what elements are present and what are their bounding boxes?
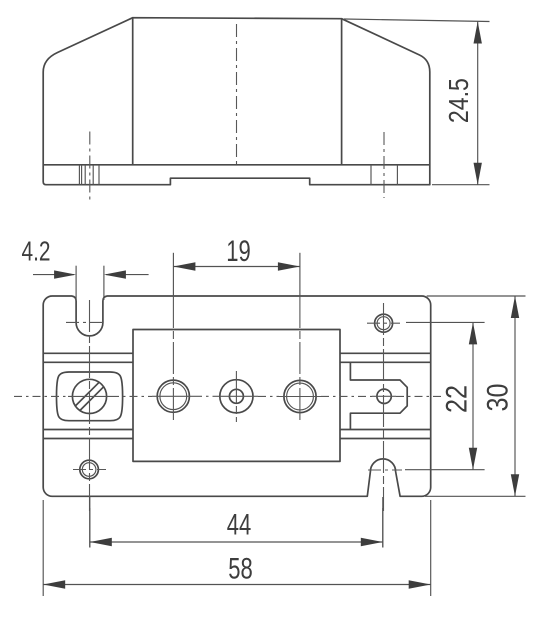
terminal hole 3 outer (284, 380, 316, 412)
dim 19 arrow right (278, 262, 300, 270)
dim 4.2 arrow right (54, 270, 76, 278)
dim 22 line (472, 322, 474, 469)
bottom left rivet horizontal centerline (73, 469, 106, 471)
dim 4.2 right leader (106, 274, 149, 276)
svg-text:44: 44 (227, 509, 252, 542)
left screw terminal barrel (57, 372, 123, 421)
hole2 centerline (235, 371, 237, 422)
side view right slot ticks (371, 165, 397, 185)
terminal hole 2 outer (220, 380, 253, 413)
dim 24.5 extension bottom (432, 184, 490, 186)
side view centerline right mount (383, 132, 385, 198)
hole1 centerline ext for 19 (172, 253, 174, 296)
left vertical centerline (89, 300, 91, 511)
svg-text:24.5: 24.5 (443, 78, 474, 123)
dim 44 ext right (382, 497, 384, 548)
plan view outer outline (43, 296, 431, 496)
dim 4.2 ext left (75, 266, 77, 300)
dim 30 arrow down (511, 474, 519, 496)
side view base top line (43, 164, 430, 166)
top slot horizontal centerline (66, 321, 106, 323)
dim 58 ext left (42, 500, 44, 596)
dim 4.2 arrow left (104, 270, 126, 278)
side view centerline left mount (89, 132, 91, 200)
dim 22 ext bottom (405, 469, 485, 471)
dim 22 arrow down (469, 448, 477, 470)
dim 44 arrow left (90, 538, 112, 546)
dim 30 ext bottom (425, 495, 526, 497)
right vertical centerline ext for 44 (382, 508, 384, 548)
dim 30 ext top (427, 295, 526, 297)
svg-text:19: 19 (226, 235, 251, 268)
dim 58 line (43, 584, 431, 586)
dim 30 line (514, 296, 516, 496)
bottom right slot horizontal centerline (368, 469, 402, 471)
dim 24.5 arrow up (474, 22, 482, 44)
hole3 centerline (299, 296, 301, 420)
hole3 centerline ext for 19 (299, 253, 301, 296)
left vertical centerline ext for 44 (89, 508, 91, 548)
side view right inner vertical (341, 19, 343, 165)
dim 30 arrow up (511, 296, 519, 318)
dim 19 arrow left (173, 262, 195, 270)
svg-text:30: 30 (482, 384, 515, 412)
right vertical centerline (383, 303, 385, 511)
screw slot slash 2 (75, 382, 99, 406)
dim 4.2 ext right (103, 266, 105, 300)
dim 44 ext left (89, 497, 91, 548)
dim 22 arrow up (469, 322, 477, 344)
terminal hole 3 inner (287, 383, 314, 410)
dim 22 ext top (406, 321, 485, 323)
dim 44 arrow right (361, 538, 383, 546)
side view left slot ticks (79, 165, 99, 185)
screw slot slash 1 (80, 387, 104, 411)
plan rails right (340, 353, 431, 438)
dim 4.2 left leader (33, 274, 74, 276)
terminal hole 2 inner (229, 389, 243, 403)
main horizontal axis centerline (14, 395, 442, 397)
side view centerline middle (236, 24, 238, 166)
dim 58 ext right (430, 500, 432, 596)
side view left inner vertical (132, 18, 134, 165)
bottom left rivet outer (80, 460, 99, 479)
top right rivet outer (375, 314, 393, 332)
dim 58 arrow right (409, 580, 431, 588)
plan central rectangle (133, 330, 340, 462)
dim 58 arrow left (43, 580, 65, 588)
right terminal tab (350, 362, 407, 429)
side view body outline (43, 18, 430, 185)
hole1 centerline (172, 296, 174, 420)
top right rivet horizontal centerline (367, 322, 400, 324)
left screw head (72, 379, 106, 413)
dim 24.5 extension top (344, 19, 490, 22)
right terminal hole (377, 389, 391, 403)
dim 44 line (90, 541, 383, 543)
dim 24.5 arrow down (474, 163, 482, 185)
svg-text:22: 22 (441, 385, 474, 413)
terminal hole 1 inner (160, 383, 187, 410)
terminal hole 1 outer (157, 380, 189, 412)
top right rivet inner (377, 317, 390, 330)
svg-text:4.2: 4.2 (22, 236, 51, 267)
svg-text:58: 58 (228, 553, 253, 586)
plan rails left (43, 353, 133, 438)
bottom left rivet inner (82, 463, 96, 477)
dim 19 line (173, 266, 300, 268)
dim 24.5 line (477, 22, 479, 185)
